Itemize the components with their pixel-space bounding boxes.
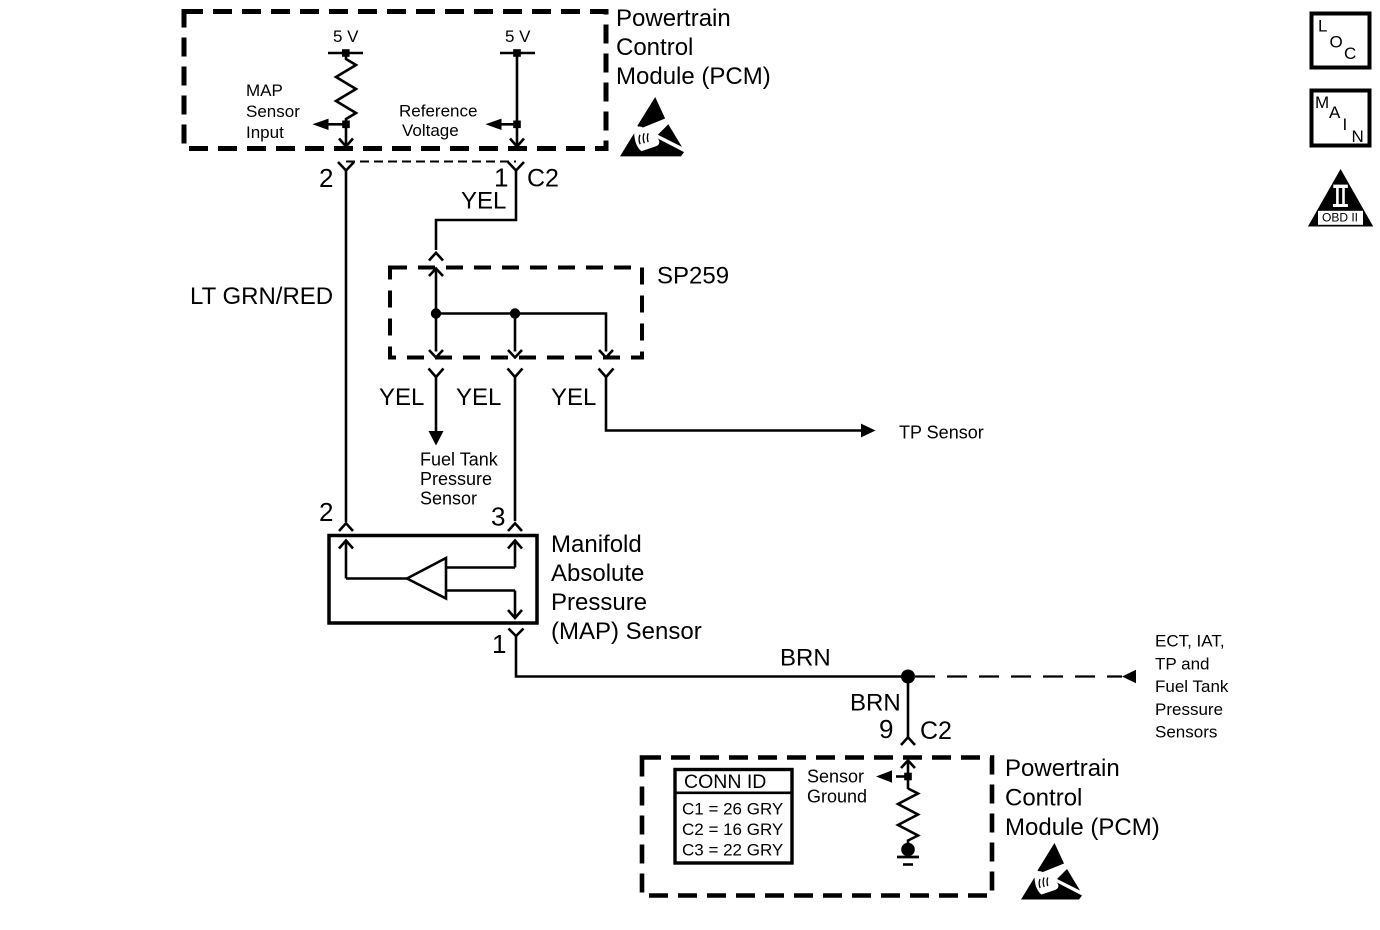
pin 1 connector half (C2)	[508, 162, 524, 171]
wire YEL to TP sensor	[606, 377, 861, 431]
wire YEL (pin 1 to splice SP259)	[436, 171, 516, 251]
svg-text:3: 3	[491, 502, 505, 532]
OBD II badge	[1308, 169, 1373, 227]
svg-text:YEL: YEL	[551, 384, 596, 411]
svg-text:CONN ID: CONN ID	[684, 771, 766, 793]
dashed wire to other sensors	[915, 675, 1122, 677]
svg-text:O: O	[1330, 33, 1343, 52]
wire LT GRN/RED (pin 2 down to MAP sensor)	[345, 171, 348, 523]
svg-text:Control: Control	[616, 34, 693, 61]
resistor R (PCM pull-up)	[336, 53, 356, 121]
svg-text:Module (PCM): Module (PCM)	[1005, 814, 1160, 841]
svg-text:(MAP) Sensor: (MAP) Sensor	[551, 618, 702, 645]
svg-text:Control: Control	[1005, 785, 1082, 812]
splice drop wire 2 + arrow	[514, 314, 517, 352]
PCM label (bottom)	[1005, 755, 1160, 841]
MAP Sensor Input arrow	[317, 123, 346, 126]
svg-text:C1 = 26 GRY: C1 = 26 GRY	[682, 800, 783, 819]
splice drop wire 1 + arrow	[435, 314, 438, 352]
pin 9 connector half	[901, 737, 915, 745]
resistor (sensor ground pull-down)	[898, 789, 918, 844]
junction node (sensor ground)	[904, 773, 912, 781]
MAP internal input arrow (pin2)	[339, 541, 353, 549]
svg-text:Input: Input	[246, 123, 284, 142]
Sensor Ground label	[807, 767, 867, 807]
svg-text:1: 1	[492, 629, 506, 659]
wire YEL to MAP pin 3	[514, 377, 517, 521]
svg-text:Voltage: Voltage	[402, 121, 459, 140]
svg-text:Sensors: Sensors	[1155, 723, 1217, 742]
svg-text:Module (PCM): Module (PCM)	[616, 63, 771, 90]
MAP sensor box	[329, 536, 537, 624]
svg-text:Fuel Tank: Fuel Tank	[420, 450, 499, 470]
svg-text:LT GRN/RED: LT GRN/RED	[190, 283, 333, 310]
svg-text:2: 2	[319, 497, 333, 527]
wire (reference voltage)	[516, 53, 519, 146]
op-amp triangle (MAP element)	[407, 558, 446, 599]
CONN ID table box	[675, 770, 792, 864]
svg-text:BRN: BRN	[780, 645, 831, 672]
splice drop wire 3 arrow	[599, 350, 613, 358]
CONN ID rows	[682, 800, 783, 860]
arrow (to ECT/IAT/TP sensors)	[1122, 670, 1136, 683]
svg-text:C: C	[1344, 44, 1356, 63]
exit connector 3	[599, 369, 614, 378]
svg-text:ECT, IAT,: ECT, IAT,	[1155, 632, 1225, 651]
svg-text:Ground: Ground	[807, 787, 867, 807]
ESD symbol (bottom PCM)	[1021, 843, 1082, 900]
ground symbol	[901, 843, 915, 857]
svg-text:Sensor: Sensor	[807, 767, 864, 787]
arrow into pin 1	[510, 139, 524, 147]
svg-text:Powertrain: Powertrain	[616, 5, 731, 32]
svg-text:Sensor: Sensor	[246, 102, 300, 121]
5 V supply rail (left)	[328, 52, 363, 55]
connector C2 dashed link	[346, 161, 516, 163]
Reference Voltage arrow	[490, 123, 517, 126]
svg-text:SP259: SP259	[657, 263, 729, 290]
splice SP259 box	[390, 268, 642, 358]
PCM module box (top)	[184, 12, 606, 149]
pin 3 connector half (MAP)	[508, 523, 522, 531]
svg-text:YEL: YEL	[461, 188, 506, 215]
svg-text:TP and: TP and	[1155, 654, 1210, 673]
Fuel Tank Pressure Sensor label	[420, 450, 499, 509]
exit connector 2	[508, 369, 523, 378]
Reference Voltage label	[399, 102, 477, 141]
pin 2 connector half (MAP)	[339, 523, 353, 531]
svg-text:Absolute: Absolute	[551, 560, 644, 587]
svg-text:YEL: YEL	[379, 384, 424, 411]
CONN ID header rule	[675, 791, 792, 794]
MAIN badge	[1312, 91, 1370, 147]
svg-text:OBD II: OBD II	[1322, 211, 1358, 225]
MAP sensor label	[551, 531, 702, 645]
MAP Sensor Input label	[246, 81, 300, 142]
ESD symbol (top PCM)	[620, 97, 684, 156]
junction dot (BRN splice)	[901, 670, 915, 684]
svg-text:Pressure: Pressure	[551, 589, 647, 616]
junction dot A	[431, 308, 441, 318]
MAP internal wire to pin3 arrow	[446, 566, 515, 569]
wire to Fuel Tank Pressure Sensor	[435, 377, 438, 432]
junction node (reference voltage)	[513, 121, 521, 129]
svg-text:Powertrain: Powertrain	[1005, 755, 1120, 782]
5 V supply rail (right)	[500, 52, 535, 55]
svg-text:TP Sensor: TP Sensor	[899, 423, 984, 443]
svg-text:Pressure: Pressure	[420, 469, 492, 489]
MAP internal wire to pin1 arrow	[446, 589, 515, 592]
PCM module box (bottom)	[642, 758, 992, 896]
svg-text:Pressure: Pressure	[1155, 700, 1223, 719]
pin 2 connector half (C2)	[338, 162, 354, 171]
svg-text:N: N	[1352, 127, 1364, 146]
wire down to pin 2 with arrow	[345, 128, 348, 146]
splice internal bus wire	[436, 314, 606, 352]
Sensor Ground arrow	[896, 775, 908, 778]
splice entry chevron	[429, 253, 443, 261]
splice internal: entry arrow	[429, 269, 443, 277]
pin 1 connector half (MAP)	[509, 629, 524, 637]
svg-text:C2 = 16 GRY: C2 = 16 GRY	[682, 820, 783, 839]
svg-text:9: 9	[879, 714, 893, 744]
svg-text:BRN: BRN	[850, 690, 901, 717]
PCM label (top)	[616, 5, 771, 90]
svg-text:I: I	[1343, 115, 1348, 134]
svg-text:2: 2	[319, 163, 333, 193]
svg-text:Fuel Tank: Fuel Tank	[1155, 677, 1229, 696]
svg-text:5 V: 5 V	[505, 27, 531, 46]
junction node (MAP sensor input)	[342, 121, 350, 129]
exit connector 1	[429, 369, 444, 378]
svg-text:Sensor: Sensor	[420, 489, 477, 509]
svg-text:M: M	[1315, 93, 1329, 112]
junction dot B	[510, 308, 520, 318]
svg-text:A: A	[1329, 103, 1341, 122]
ECT IAT TP label	[1155, 632, 1229, 742]
svg-text:MAP: MAP	[246, 81, 283, 100]
svg-text:YEL: YEL	[456, 384, 501, 411]
svg-text:C2: C2	[920, 717, 952, 745]
svg-text:5 V: 5 V	[333, 27, 359, 46]
LOC badge	[1312, 14, 1370, 68]
svg-text:C2: C2	[527, 165, 559, 193]
wire BRN	[516, 636, 908, 677]
TP sensor arrow	[861, 424, 876, 438]
wire BRN down to pin 9	[907, 677, 910, 738]
svg-text:C3 = 22 GRY: C3 = 22 GRY	[682, 841, 783, 860]
svg-text:Reference: Reference	[399, 102, 477, 121]
pin 9 entry arrow	[901, 761, 915, 769]
svg-text:Manifold: Manifold	[551, 531, 642, 558]
svg-text:L: L	[1318, 17, 1327, 36]
